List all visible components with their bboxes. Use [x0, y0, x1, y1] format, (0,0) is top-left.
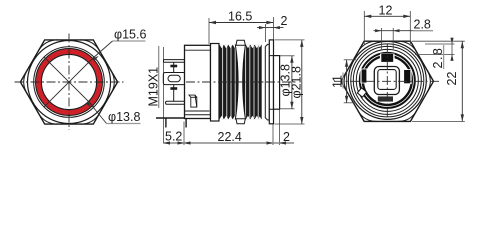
thread crest teeth bottom	[220, 116, 262, 120]
red ring inner edge	[41, 54, 96, 109]
svg-text:22.4: 22.4	[218, 130, 242, 144]
housing block	[185, 45, 211, 118]
red ring outer edge	[36, 49, 103, 116]
svg-text:22: 22	[445, 72, 459, 86]
dim phi21.8 (flange)	[275, 40, 305, 124]
svg-text:φ15.6: φ15.6	[114, 28, 146, 42]
hex nut outline	[341, 41, 434, 121]
label phi13.8 leader	[86, 101, 140, 123]
svg-text:2.8: 2.8	[431, 47, 445, 69]
dim phi13.8 (button)	[280, 56, 295, 109]
extension line at pin tips	[163, 47, 165, 144]
terminal tab right	[403, 69, 412, 84]
svg-text:5.2: 5.2	[165, 130, 182, 144]
hex corner chamfer arcs	[344, 41, 430, 121]
outer circle	[348, 41, 426, 119]
washer ring with chamfer	[265, 44, 269, 120]
pin 2 bottom flat	[166, 101, 186, 104]
dim 12 top	[364, 11, 410, 44]
svg-text:12: 12	[379, 3, 393, 17]
housing small box detail	[189, 95, 197, 107]
housing inner edge line	[185, 49, 211, 51]
svg-text:2: 2	[281, 14, 288, 28]
dim 2 top	[264, 24, 266, 42]
button head	[274, 56, 280, 110]
thread label underline	[158, 46, 160, 108]
bottom dims 5.2 / 22.4 / 2	[184, 110, 280, 146]
solder pin left	[165, 118, 167, 128]
button shaft edges	[269, 56, 273, 110]
diagonal centerline 2	[44, 57, 94, 107]
threaded barrel M19	[219, 45, 262, 119]
fourth circle	[356, 49, 418, 111]
terminal tab top	[380, 54, 395, 63]
thread keyway relief	[235, 45, 245, 119]
svg-text:φ13.8: φ13.8	[108, 110, 140, 124]
solder pin right	[185, 118, 187, 128]
thick dark ring	[361, 55, 413, 107]
housing step lines	[185, 111, 211, 115]
terminal tab bottom	[377, 96, 395, 102]
dim 22 right	[412, 41, 465, 121]
label phi15.6 leader	[93, 41, 146, 60]
dim 2.8 top right	[381, 28, 393, 50]
diagonal centerline 1	[44, 57, 94, 107]
svg-text:2: 2	[283, 130, 290, 144]
keyway lug top	[236, 40, 245, 45]
red illuminated ring	[39, 52, 100, 113]
bezel inner circle	[34, 47, 105, 118]
bezel circle	[28, 41, 111, 124]
bottom dimension line	[164, 142, 295, 144]
actuator square outer	[374, 67, 399, 95]
actuator square inner	[378, 70, 396, 90]
dim 11 left	[344, 60, 356, 103]
svg-text:16.5: 16.5	[228, 10, 252, 24]
svg-text:φ21.8: φ21.8	[290, 66, 304, 98]
ring inner white split arc	[361, 54, 413, 106]
centerline horizontal	[334, 80, 441, 82]
thread crest teeth top	[220, 45, 262, 49]
svg-text:2.8: 2.8	[414, 17, 431, 31]
third circle	[353, 46, 421, 114]
centerline middle view	[186, 81, 296, 83]
bottom pin flat	[156, 117, 185, 119]
collar washer	[211, 44, 220, 122]
keyway lug bottom	[236, 119, 245, 124]
hex corner chamfer arcs	[24, 40, 115, 124]
flange	[269, 40, 273, 124]
dim 2.8 right	[415, 38, 455, 62]
centerline vertical	[386, 44, 388, 119]
second circle	[351, 44, 424, 117]
hex bezel outline	[20, 40, 117, 124]
tab lower riser	[173, 85, 175, 102]
terminal tab left	[360, 69, 367, 84]
svg-text:11: 11	[330, 75, 344, 88]
keyway notch lower-left	[357, 88, 366, 97]
centerline horizontal	[15, 81, 124, 83]
pin 1 top flat	[163, 60, 185, 105]
pin 1 riser	[173, 62, 175, 72]
terminal tab with hole	[163, 73, 184, 85]
centerline vertical	[68, 34, 70, 131]
dim 16.5	[209, 17, 273, 44]
